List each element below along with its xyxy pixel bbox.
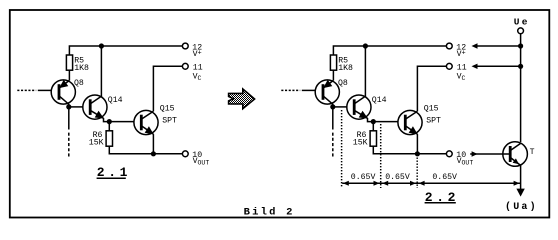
node A: Q8 collector / Q14 base junction — [66, 104, 71, 109]
svg-text:15K: 15K — [89, 138, 104, 147]
wire: Q15 collector up to VC pin — [153, 66, 182, 111]
wire: node B down to R6 — [108, 122, 110, 131]
pin 10 VOUT — [446, 151, 452, 157]
svg-text:0.65V: 0.65V — [385, 173, 410, 182]
transistor Q8 (PNP) — [315, 80, 339, 104]
svg-text:15K: 15K — [353, 138, 368, 147]
wire: Q8 collector down to node A — [332, 104, 334, 107]
node: rail junction to Q14 collector — [363, 43, 368, 48]
wire: arrow from pin 10 to transistor T base — [470, 153, 510, 155]
svg-text:Q8: Q8 — [338, 79, 348, 88]
svg-text:T: T — [530, 148, 535, 157]
node C: output junction — [415, 151, 420, 156]
reference dotted line from node A (Q8 emitter level) — [341, 110, 343, 188]
svg-text:Q14: Q14 — [372, 96, 387, 105]
wire: dashed input to Q8 base — [281, 89, 300, 91]
node B: Q14 emitter / R6 / Q15 base junction — [371, 119, 376, 124]
svg-text:0.65V: 0.65V — [351, 173, 376, 182]
svg-text:Q15: Q15 — [424, 105, 439, 114]
pin 11 VC — [446, 63, 452, 69]
node C: output junction — [151, 151, 156, 156]
wire: node A continuation down (part solid, part dotted) — [332, 107, 334, 130]
terminal Ue — [518, 28, 524, 34]
resistor R6 15K — [106, 131, 112, 146]
node B: Q14 emitter / R6 / Q15 base junction — [107, 119, 112, 124]
pin 10 VOUT — [182, 151, 188, 157]
wire: Q8 collector down to node A — [68, 104, 70, 107]
resistor R5 1K8 — [330, 55, 336, 70]
svg-text:(Ua): (Ua) — [505, 201, 538, 213]
transistor T (NPN) — [503, 142, 528, 167]
wire: V+ top rail (circuit 2.2) — [333, 46, 446, 55]
dimension line with arrowheads — [342, 182, 520, 184]
wire: Q15 collector up to VC pin — [417, 66, 446, 111]
wire: R6 bottom to output line — [373, 146, 446, 154]
svg-text:1K8: 1K8 — [74, 64, 89, 73]
svg-text:SPT: SPT — [162, 116, 177, 125]
wire: node B down to R6 — [372, 122, 374, 131]
wire: R6 bottom to output line — [109, 146, 182, 154]
reference dotted line from output node level — [416, 158, 418, 189]
transistor Q14 (NPN) — [347, 95, 371, 119]
wire: node B to Q15 base — [109, 121, 134, 123]
node: Ue line / pin 12 arrow junction — [518, 43, 523, 48]
wire: Q14 collector up to rail — [364, 46, 366, 97]
pin 11 VC — [182, 63, 188, 69]
wire: Q14 emitter to node B — [104, 118, 110, 122]
svg-text:Bild 2: Bild 2 — [244, 206, 295, 218]
wire: Q14 emitter to node B — [368, 118, 374, 122]
wire: Q15 emitter down to output node — [152, 134, 154, 154]
pin 12 V+ — [446, 43, 452, 49]
wire: node B to Q15 base — [373, 121, 398, 123]
svg-text:11: 11 — [193, 64, 203, 73]
transistor Q15 (NPN) SPT — [134, 110, 158, 134]
node: Ue line / pin 11 arrow junction — [518, 64, 523, 69]
svg-text:0.65V: 0.65V — [432, 173, 457, 182]
wire: Ue vertical line down to transistor T collector — [520, 34, 522, 142]
wire: R5 bottom to Q8 emitter — [332, 70, 334, 80]
node: rail junction to Q14 collector — [99, 43, 104, 48]
svg-text:Q8: Q8 — [74, 79, 84, 88]
wire: node A to Q14 base — [333, 106, 347, 108]
wire: V+ top rail (circuit 2.1) — [69, 46, 182, 55]
wire: R5 bottom to Q8 emitter — [68, 70, 70, 80]
transistor Q14 (NPN) — [83, 95, 107, 119]
svg-text:Q15: Q15 — [160, 105, 175, 114]
transistor Q15 (NPN) SPT — [398, 110, 422, 134]
svg-text:1K8: 1K8 — [338, 64, 353, 73]
svg-text:Ue: Ue — [514, 16, 530, 27]
wire: node A continuation down (part solid, part dotted) — [68, 107, 70, 130]
big checkered arrow symbol — [229, 89, 255, 109]
reference dotted line from node B level — [380, 124, 382, 188]
node A: Q8 collector / Q14 base junction — [330, 104, 335, 109]
wire: Q15 emitter down to output node — [416, 134, 418, 154]
pin 12 V+ — [182, 43, 188, 49]
wire: arrow from Ue line into pin 12 — [474, 45, 521, 47]
resistor R5 1K8 — [66, 55, 72, 70]
transistor Q8 (PNP) — [51, 80, 75, 104]
svg-text:11: 11 — [457, 64, 467, 73]
wire: arrow from Ue line into pin 11 — [474, 65, 521, 67]
svg-text:Q14: Q14 — [108, 96, 123, 105]
wire: node A to Q14 base — [69, 106, 83, 108]
svg-text:SPT: SPT — [426, 116, 441, 125]
wire: dashed input to Q8 base — [17, 89, 36, 91]
resistor R6 15K — [370, 131, 376, 146]
wire: Q14 collector up to rail — [100, 46, 102, 97]
wire: T emitter down with output arrow — [520, 165, 522, 189]
